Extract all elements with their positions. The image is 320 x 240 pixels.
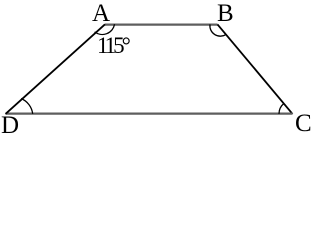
- vertex label C: [295, 111, 312, 136]
- vertex label A: [92, 1, 110, 26]
- angle arc at A: [95, 24, 115, 34]
- angle arc at B: [210, 24, 226, 36]
- angle value 115 degrees: [97, 34, 128, 57]
- wire side BC (right slant): [218, 24, 293, 114]
- vertex label D: [1, 113, 19, 138]
- vertex label B: [217, 1, 234, 26]
- wire side DC (bottom): [6, 112, 293, 114]
- angle arc at D: [21, 99, 33, 114]
- wire side DA (left slant): [6, 24, 106, 114]
- angle arc at C: [279, 104, 284, 114]
- wire side AB (top): [105, 24, 218, 26]
